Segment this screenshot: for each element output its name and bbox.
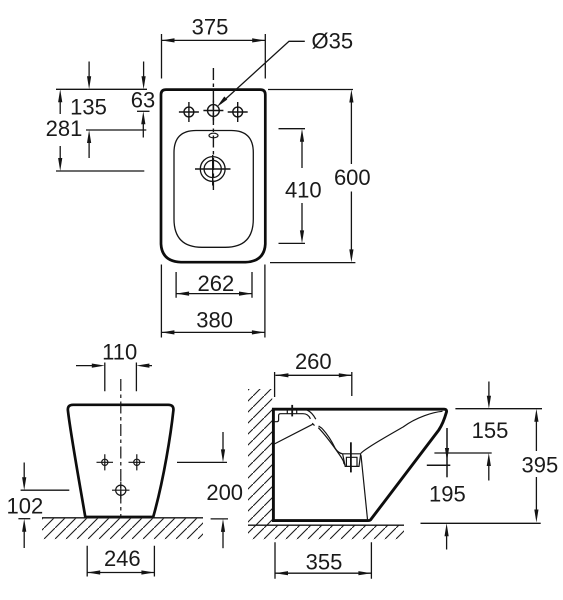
leader arrowhead [217, 97, 228, 108]
dim 410 stem and arrows [301, 142, 303, 231]
dim 281 lower arrow (down, internal) [59, 146, 61, 159]
dim 63 lower arrow (up, below tick) [142, 124, 144, 138]
dim 135 lower arrow (up, below line) [88, 143, 90, 158]
svg-text:260: 260 [295, 349, 332, 374]
front view outline [68, 405, 174, 517]
top view overflow ellipse [209, 133, 218, 138]
wall hatch [248, 389, 272, 525]
side floor line [248, 524, 404, 526]
side bowl inner curve (left) [322, 428, 343, 453]
dim 155 lower reference line [434, 452, 491, 454]
dim 110 bars [105, 363, 137, 392]
tap hole left [179, 102, 199, 122]
svg-text:380: 380 [196, 307, 233, 332]
dim 355 bars [275, 542, 371, 579]
dim 102 lower arrow (up) [23, 531, 25, 548]
side deck profile [275, 414, 311, 422]
dim 63 lower tick [137, 110, 150, 112]
leader line O35 [221, 41, 305, 103]
side bowl underside curve [318, 428, 345, 465]
dim 155 lower arrow (up) [488, 466, 490, 481]
dim 102 upper arrow (down) [23, 463, 25, 479]
dim 200 upper arrow (down) [222, 432, 224, 450]
side supply line [274, 424, 312, 444]
side view outline [273, 409, 446, 520]
side trap inner [346, 457, 358, 466]
bottom right extension line [421, 522, 541, 524]
tap hole right [228, 102, 248, 122]
side bowl rim curve from top edge [307, 410, 316, 419]
top right extension line [455, 408, 542, 410]
front drain hole [112, 482, 130, 499]
dim 262 line and arrows [176, 293, 252, 295]
dim 110 line and outside arrows [76, 365, 152, 367]
dim 102 upper reference line [21, 489, 70, 491]
side bowl inner curve (right) [361, 411, 443, 453]
dim 135 upper arrow (down, above top line) [88, 62, 90, 78]
svg-text:102: 102 [7, 494, 44, 519]
dim 200 lower tick [211, 518, 228, 520]
dim 260 left extension [274, 372, 276, 397]
dim 102 lower tick [18, 518, 30, 520]
dim 195 upper stem and arrow [446, 428, 448, 477]
svg-text:410: 410 [285, 178, 322, 203]
side floor hatch [248, 525, 404, 539]
side tap hole edges [287, 410, 296, 414]
tap hole center [203, 101, 223, 121]
top view vertical centerline [212, 68, 214, 190]
dim 262 bars [176, 272, 252, 298]
side drain centerline [350, 442, 352, 472]
dim 410 top tick [279, 128, 306, 130]
dim 380 extension lines [161, 265, 265, 338]
dim 155 upper arrow (down) [488, 382, 490, 397]
dim 200 upper reference line [177, 461, 227, 463]
svg-text:Ø35: Ø35 [312, 29, 354, 54]
front tap hole left [97, 454, 114, 470]
dim 195 lower arrow (up) [446, 536, 448, 550]
dim 200 lower arrow (up) [222, 532, 224, 549]
svg-text:355: 355 [306, 550, 343, 575]
side tap hole stub [291, 405, 293, 417]
dim 355 line and arrows [275, 572, 371, 574]
svg-text:375: 375 [192, 14, 229, 39]
dim 63 upper arrow (down, above top line) [143, 62, 145, 78]
extension line bottom (600 bottom ref) [270, 262, 355, 264]
dim 246 line and arrows [87, 572, 154, 574]
side bowl front dashes [312, 423, 322, 428]
dim 375 line [162, 39, 266, 41]
dim 410 bottom tick [279, 242, 306, 244]
svg-text:195: 195 [429, 482, 466, 507]
svg-text:395: 395 [522, 453, 559, 478]
svg-text:155: 155 [472, 418, 509, 443]
dim 246 bars [87, 546, 154, 577]
svg-text:262: 262 [198, 271, 235, 296]
dim 375 extension lines [162, 34, 266, 79]
svg-text:600: 600 [334, 165, 371, 190]
side outlet pipe line [361, 455, 368, 520]
drain top view [195, 155, 231, 186]
front centerline [120, 379, 122, 516]
front floor line [42, 517, 203, 519]
dim 135 lower reference line [86, 129, 146, 131]
dim 395 stem and arrows [535, 422, 537, 511]
dim 281 lower reference line [56, 170, 144, 172]
side trap outer [343, 454, 361, 467]
svg-text:63: 63 [131, 88, 155, 113]
extension line top edge left [56, 88, 147, 90]
extension line top edge right (600 top ref) [268, 89, 353, 91]
front tap hole right [129, 454, 146, 470]
svg-text:246: 246 [104, 546, 141, 571]
top view inner bowl [174, 131, 253, 248]
dim 380 line and arrows [161, 331, 265, 333]
dim 260 right bar [351, 372, 353, 396]
svg-text:110: 110 [102, 340, 137, 365]
dim 375 arrows [162, 38, 175, 42]
dim 600 stem and arrows [350, 102, 352, 250]
dim 260 line and arrows [275, 374, 351, 376]
dim 195 upper tick [427, 464, 451, 466]
svg-text:281: 281 [46, 116, 83, 141]
front floor hatch [42, 519, 203, 540]
dim 281 upper arrow (up, internal) [59, 102, 61, 114]
svg-text:200: 200 [206, 480, 243, 505]
top view outline [161, 90, 265, 263]
